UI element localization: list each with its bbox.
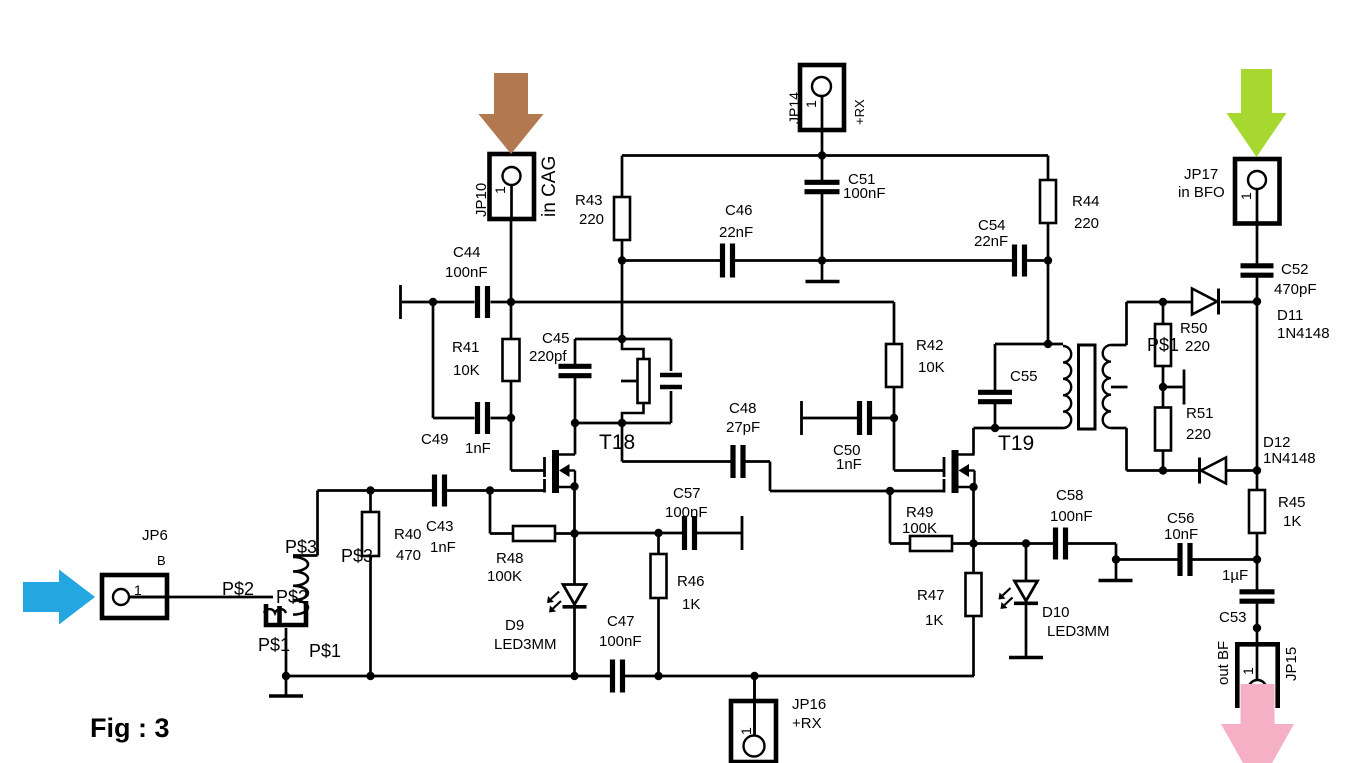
- svg-text:D11: D11: [1277, 307, 1303, 324]
- svg-text:R40: R40: [394, 526, 422, 543]
- svg-text:JP15: JP15: [1283, 647, 1300, 681]
- svg-text:100nF: 100nF: [843, 185, 886, 202]
- svg-text:100K: 100K: [487, 568, 522, 585]
- svg-text:1K: 1K: [1283, 513, 1301, 530]
- svg-text:C45: C45: [542, 330, 570, 347]
- svg-text:1: 1: [803, 100, 819, 108]
- svg-text:D10: D10: [1042, 604, 1070, 621]
- svg-text:1: 1: [738, 727, 754, 735]
- svg-text:1nF: 1nF: [430, 539, 456, 556]
- svg-text:+RX: +RX: [792, 715, 822, 732]
- svg-text:470: 470: [396, 547, 421, 564]
- svg-text:C56: C56: [1167, 510, 1195, 527]
- svg-text:1N4148: 1N4148: [1277, 325, 1330, 342]
- svg-text:in CAG: in CAG: [539, 156, 560, 217]
- svg-text:1nF: 1nF: [465, 440, 491, 457]
- svg-text:1: 1: [1238, 192, 1254, 200]
- svg-text:+RX: +RX: [852, 99, 867, 125]
- svg-text:R41: R41: [452, 339, 480, 356]
- svg-text:C57: C57: [673, 485, 701, 502]
- svg-text:LED3MM: LED3MM: [1047, 623, 1110, 640]
- svg-text:R44: R44: [1072, 193, 1100, 210]
- svg-text:220: 220: [1186, 426, 1211, 443]
- svg-text:R42: R42: [916, 337, 944, 354]
- svg-text:LED3MM: LED3MM: [494, 636, 557, 653]
- svg-text:10nF: 10nF: [1164, 526, 1198, 543]
- svg-text:220: 220: [579, 211, 604, 228]
- svg-text:220pf: 220pf: [529, 348, 567, 365]
- svg-text:R45: R45: [1278, 494, 1306, 511]
- svg-text:1: 1: [134, 582, 142, 598]
- svg-text:D12: D12: [1263, 434, 1291, 451]
- svg-text:JP17: JP17: [1184, 166, 1218, 183]
- svg-text:JP10: JP10: [473, 183, 490, 217]
- svg-text:P$1: P$1: [309, 641, 341, 661]
- svg-text:C53: C53: [1219, 609, 1247, 626]
- svg-text:C54: C54: [978, 217, 1006, 234]
- svg-text:100nF: 100nF: [665, 504, 708, 521]
- svg-text:1nF: 1nF: [836, 456, 862, 473]
- svg-text:JP14: JP14: [786, 92, 802, 124]
- svg-text:100nF: 100nF: [445, 264, 488, 281]
- svg-text:22nF: 22nF: [974, 233, 1008, 250]
- svg-text:D9: D9: [505, 617, 524, 634]
- svg-text:T19: T19: [998, 432, 1034, 455]
- svg-text:R48: R48: [496, 550, 524, 567]
- svg-text:P$1: P$1: [258, 635, 290, 655]
- svg-text:R46: R46: [677, 573, 705, 590]
- svg-text:1K: 1K: [682, 596, 700, 613]
- svg-text:C46: C46: [725, 202, 753, 219]
- svg-text:C55: C55: [1010, 368, 1038, 385]
- svg-text:B: B: [157, 553, 166, 568]
- svg-text:C52: C52: [1281, 261, 1309, 278]
- svg-text:out BF: out BF: [1215, 641, 1232, 685]
- svg-text:P$2: P$2: [276, 587, 308, 607]
- svg-text:R43: R43: [575, 192, 603, 209]
- svg-text:C47: C47: [607, 613, 635, 630]
- svg-text:22nF: 22nF: [719, 224, 753, 241]
- svg-text:P$1: P$1: [1147, 335, 1179, 355]
- svg-text:C58: C58: [1056, 487, 1084, 504]
- svg-text:R49: R49: [906, 504, 934, 521]
- svg-text:1: 1: [1240, 667, 1256, 675]
- svg-text:C43: C43: [426, 518, 454, 535]
- svg-text:100nF: 100nF: [599, 633, 642, 650]
- svg-text:1: 1: [492, 186, 508, 194]
- svg-text:1µF: 1µF: [1222, 567, 1248, 584]
- svg-text:in BFO: in BFO: [1178, 184, 1225, 201]
- svg-text:10K: 10K: [453, 362, 480, 379]
- svg-text:R51: R51: [1186, 405, 1214, 422]
- svg-text:C48: C48: [729, 400, 757, 417]
- svg-text:R47: R47: [917, 587, 945, 604]
- svg-text:1K: 1K: [925, 612, 943, 629]
- svg-text:P$3: P$3: [285, 537, 317, 557]
- svg-text:470pF: 470pF: [1274, 281, 1317, 298]
- svg-text:1N4148: 1N4148: [1263, 450, 1316, 467]
- svg-text:100nF: 100nF: [1050, 508, 1093, 525]
- svg-text:220: 220: [1185, 338, 1210, 355]
- svg-text:C44: C44: [453, 244, 481, 261]
- svg-text:220: 220: [1074, 215, 1099, 232]
- svg-text:27pF: 27pF: [726, 419, 760, 436]
- svg-text:P$2: P$2: [222, 579, 254, 599]
- svg-text:Fig : 3: Fig : 3: [90, 713, 170, 743]
- svg-text:JP16: JP16: [792, 696, 826, 713]
- svg-text:100K: 100K: [902, 520, 937, 537]
- svg-text:R50: R50: [1180, 320, 1208, 337]
- svg-text:10K: 10K: [918, 359, 945, 376]
- svg-text:P$3: P$3: [341, 546, 373, 566]
- svg-text:C49: C49: [421, 431, 449, 448]
- svg-text:JP6: JP6: [142, 527, 168, 544]
- svg-text:T18: T18: [599, 431, 635, 454]
